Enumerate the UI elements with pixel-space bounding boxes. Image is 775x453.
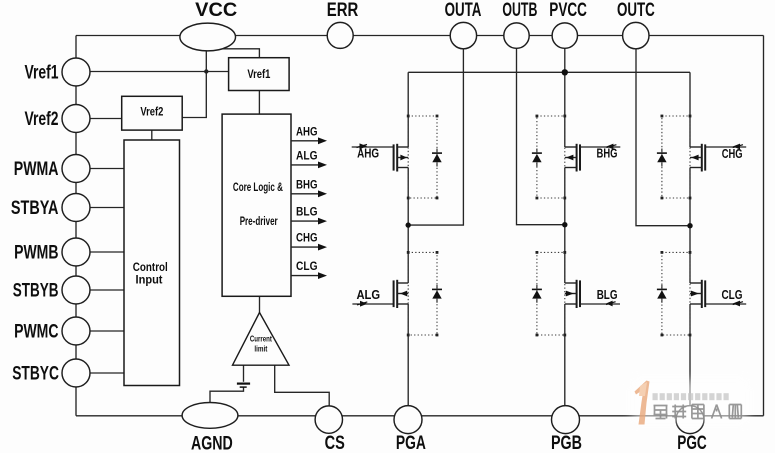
pin CS (315, 406, 342, 433)
transistor Q3 BHG body stub (565, 157, 577, 159)
svg-text:CLG: CLG (722, 288, 743, 302)
block Control Input (124, 140, 180, 386)
wire STBYC pin to Control Input (76, 372, 124, 374)
wire Vref1 block to Core Logic (258, 91, 260, 115)
transistor Q4 BLG channel bar (576, 280, 578, 308)
body diode B low (532, 288, 542, 290)
gate label arrow CLG (733, 301, 740, 307)
watermark white halo (632, 380, 748, 422)
transistor Q2 ALG source stub (397, 303, 408, 305)
gate label arrow BLG (606, 301, 613, 307)
transistor Q4 BLG source stub (565, 303, 577, 305)
op-amp Current limit triangle (233, 313, 290, 366)
wire Current limit left leg to battery (243, 365, 245, 382)
svg-text:STBYB: STBYB (13, 279, 59, 301)
wire Current limit right leg to CS (275, 365, 330, 406)
gate label arrow CHG (733, 144, 740, 150)
transistor Q1 AHG gate bar (393, 144, 395, 170)
pin Vref1 (62, 58, 90, 86)
svg-text:OUTB: OUTB (502, 0, 537, 21)
svg-text:OUTC: OUTC (617, 0, 655, 21)
driver output arrow BLG (291, 220, 319, 222)
svg-text:VCC: VCC (195, 0, 237, 21)
wire Core Logic to Current limit (259, 296, 261, 313)
dotted body-diode box AHG (408, 116, 437, 198)
wire VCC down to Vref2 block (182, 50, 206, 118)
svg-text:BLG: BLG (296, 205, 318, 219)
junction VCC/Vref1 wire crossing (204, 69, 208, 73)
pin PVCC (552, 23, 577, 48)
junction PVCC rail (562, 69, 568, 75)
svg-text:PVCC: PVCC (549, 0, 587, 21)
svg-text:Control: Control (133, 262, 168, 274)
svg-text:AGND: AGND (191, 433, 233, 453)
pin PGA (394, 406, 422, 434)
wire PWMB pin to Control Input (76, 251, 124, 253)
pin STBYB (62, 276, 90, 304)
wire top rail (76, 35, 764, 37)
svg-text:PGC: PGC (677, 432, 707, 453)
svg-text:Core Logic &: Core Logic & (233, 182, 283, 194)
svg-text:PGA: PGA (396, 432, 426, 453)
transistor Q3 BHG drain stub (565, 146, 577, 148)
wire PWMA pin to Control Input (76, 168, 124, 170)
wire STBYB pin to Control Input (76, 289, 124, 291)
svg-text:BHG: BHG (597, 147, 618, 161)
dotted body-diode box CLG (662, 252, 690, 335)
transistor Q2 ALG body stub (397, 293, 408, 295)
pin PWMC (62, 317, 90, 345)
transistor Q2 ALG gate bar (393, 280, 395, 307)
transistor Q3 BHG gate bar (579, 144, 581, 170)
transistor Q4 BLG body stub (565, 293, 577, 295)
wire phase C CLG source to PGC (689, 304, 691, 406)
pin OUTC (623, 22, 649, 48)
gate label arrow ALG (360, 301, 367, 307)
driver output arrow CHG (291, 246, 319, 248)
svg-text:Input: Input (136, 275, 163, 287)
wire VCC to Vref1 block (218, 49, 259, 58)
pin VCC ellipse (180, 23, 236, 51)
wire bottom rail (76, 415, 764, 417)
junction node OUTB / phase B (562, 222, 567, 227)
wire OUTC down (636, 49, 690, 226)
svg-text:PWMA: PWMA (14, 158, 59, 180)
wire STBYA pin to Control Input (76, 207, 124, 209)
svg-text:BHG: BHG (296, 177, 318, 191)
pin PWMB (62, 238, 90, 266)
pin OUTA (450, 22, 476, 48)
transistor Q6 CLG body stub (690, 293, 702, 295)
wire phase A drain from rail (407, 72, 409, 147)
transistor Q6 CLG channel bar (701, 280, 703, 308)
wire PVCC rail (408, 71, 690, 73)
transistor Q3 BHG gate lead (579, 146, 620, 148)
transistor Q4 BLG body arrow (566, 291, 574, 297)
block Vref2 (122, 96, 183, 130)
transistor Q5 CHG drain stub (690, 146, 702, 148)
transistor Q6 CLG body arrow (691, 291, 699, 297)
transistor Q3 BHG body arrow (566, 155, 573, 161)
svg-text:Vref1: Vref1 (25, 61, 59, 83)
wire Vref1 pin to Vref1 block (76, 71, 229, 73)
wire phase B BLG source to PGB (564, 304, 566, 406)
transistor Q6 CLG gate lead (705, 303, 747, 305)
transistor Q4 BLG gate bar (579, 280, 581, 307)
transistor Q1 AHG source stub (397, 167, 408, 169)
block Core Logic and Pre-driver (222, 114, 291, 296)
dotted body-diode box CHG (662, 116, 690, 198)
body diode B high (532, 152, 542, 154)
svg-text:ERR: ERR (327, 0, 359, 21)
driver output arrow AHG (291, 140, 319, 142)
svg-text:ALG: ALG (356, 288, 380, 302)
wire phase B source to OUTB node and BLG drain (564, 168, 566, 284)
wire left bus (75, 36, 77, 416)
svg-text:PGB: PGB (551, 432, 582, 453)
pin Vref2 (62, 105, 90, 133)
transistor Q2 ALG body arrow (400, 291, 407, 297)
svg-text:Vref2: Vref2 (25, 108, 59, 130)
driver output arrow BHG (291, 193, 319, 195)
wire OUTB down (517, 48, 565, 224)
svg-text:Vref1: Vref1 (247, 67, 270, 81)
svg-text:AHG: AHG (357, 147, 379, 161)
transistor Q3 BHG channel bar (576, 144, 578, 172)
pin STBYA (62, 194, 90, 222)
transistor Q4 BLG gate lead (579, 303, 620, 305)
wire PWMC pin to Control Input (76, 330, 124, 332)
wire phase C drain from rail (689, 72, 691, 147)
svg-text:ALG: ALG (296, 148, 318, 162)
dotted body-diode box BLG (537, 252, 565, 335)
body diode A low (432, 288, 442, 290)
svg-text:CHG: CHG (296, 231, 318, 245)
transistor Q6 CLG gate bar (704, 280, 706, 307)
pin OUTB (504, 23, 529, 48)
transistor Q5 CHG body stub (690, 157, 702, 159)
transistor Q1 AHG body stub (397, 157, 408, 159)
gate label arrow BHG (606, 144, 613, 150)
block Vref1 (229, 58, 290, 91)
wire right edge (763, 36, 765, 416)
watermark site name characters (654, 405, 742, 419)
driver output arrow ALG (291, 164, 319, 166)
transistor Q1 AHG drain stub (397, 146, 408, 148)
wire battery to AGND (210, 387, 244, 403)
transistor Q6 CLG source stub (690, 303, 702, 305)
junction node OUTA / phase A (406, 222, 411, 227)
svg-text:CHG: CHG (722, 147, 743, 161)
svg-text:PWMB: PWMB (14, 241, 58, 263)
svg-text:STBYC: STBYC (12, 362, 59, 384)
svg-text:Pre-driver: Pre-driver (240, 216, 278, 228)
junction node OUTC / phase C (687, 223, 692, 228)
dotted body-diode box ALG (408, 252, 437, 335)
battery symbol below current limit (237, 383, 250, 385)
svg-text:STBYA: STBYA (11, 197, 59, 219)
svg-text:Vref2: Vref2 (140, 105, 163, 119)
transistor Q5 CHG channel bar (701, 144, 703, 172)
pin AGND ellipse (182, 403, 238, 429)
wire PVCC down / phase B drain (564, 48, 566, 147)
transistor Q1 AHG channel bar (396, 144, 398, 172)
pin PWMA (62, 155, 90, 183)
svg-text:OUTA: OUTA (445, 0, 482, 21)
pin ERR (327, 22, 353, 48)
transistor Q1 AHG gate lead (352, 146, 394, 148)
svg-text:CLG: CLG (296, 259, 318, 273)
pin STBYC (62, 359, 90, 387)
svg-text:PWMC: PWMC (14, 320, 58, 342)
body diode C high (657, 152, 667, 154)
transistor Q1 AHG body arrow (400, 155, 407, 161)
transistor Q3 BHG source stub (565, 167, 577, 169)
transistor Q2 ALG drain stub (397, 282, 408, 284)
dotted body-diode box BHG (537, 116, 565, 198)
transistor Q2 ALG gate lead (352, 303, 393, 305)
svg-text:limit: limit (254, 344, 267, 354)
pin PGB (552, 406, 580, 434)
svg-text:BLG: BLG (597, 288, 618, 302)
pin PGC (676, 406, 704, 434)
watermark logo "1" (635, 381, 650, 425)
wire Vref2 block to Control Input (151, 130, 153, 140)
svg-text:Current: Current (250, 334, 272, 344)
gate label arrow AHG (360, 143, 368, 149)
driver output arrow CLG (291, 275, 319, 277)
transistor Q2 ALG channel bar (396, 280, 398, 308)
watermark small slogan row (653, 393, 729, 400)
transistor Q5 CHG body arrow (691, 155, 698, 161)
wire phase A source to OUTA node and ALG drain (407, 168, 409, 284)
body diode A high (432, 152, 442, 154)
body diode C low (657, 288, 667, 290)
transistor Q5 CHG gate bar (704, 144, 706, 170)
svg-text:AHG: AHG (296, 124, 318, 138)
wire phase A ALG source to PGA (407, 304, 409, 406)
wire Vref2 pin to Vref2 block (76, 118, 122, 120)
wire OUTA down (408, 49, 463, 225)
transistor Q4 BLG drain stub (565, 282, 577, 284)
transistor Q5 CHG source stub (690, 167, 702, 169)
svg-text:CS: CS (325, 432, 345, 453)
transistor Q5 CHG gate lead (705, 146, 747, 148)
transistor Q6 CLG drain stub (690, 282, 702, 284)
wire phase C source to OUTC node and CLG drain (689, 168, 691, 284)
